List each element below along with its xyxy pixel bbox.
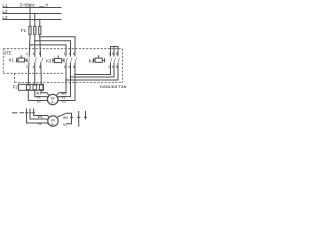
wire motor left leads [41,91,49,96]
contact K2 pole 1 [111,58,112,62]
svg-text:W2: W2 [63,116,68,120]
svg-text:K1: K1 [9,58,15,63]
F2 element 2 [33,85,37,90]
svg-text:K2: K2 [89,59,95,64]
svg-text:5: 5 [39,52,41,56]
bottom diagram wires right [66,113,72,124]
overload relay F2 box [19,84,44,90]
svg-text:NS640IT3b: NS640IT3b [100,85,127,89]
contact K1 pole 1 [28,58,29,62]
svg-text:3~: 3~ [51,100,55,104]
svg-text:6: 6 [116,65,118,69]
wire K3 pole gaps [65,63,67,81]
svg-text:3~: 3~ [51,122,55,126]
F2 element 1 [27,85,31,90]
wire branch to K3 mid phase 2 [35,41,71,57]
svg-text:2: 2 [26,65,28,69]
junction dots [29,7,115,81]
contactor K3 coil [53,55,64,62]
contactor K2 coil [94,55,105,62]
wire L2 rail [3,13,62,15]
svg-text:5: 5 [116,52,118,56]
svg-text:3TE: 3TE [4,51,12,56]
svg-text:K3: K3 [46,59,52,64]
contact K1 pole 2 [35,58,36,62]
motor M1 circle [48,94,58,104]
F2 element 3 [39,85,43,90]
svg-text:6: 6 [73,65,75,69]
wire motor right leads [56,80,66,95]
svg-text:V: V [45,2,48,7]
motor M2 circle [48,116,58,126]
svg-text:5: 5 [73,52,75,56]
blank voltage line [39,6,44,8]
svg-text:4: 4 [33,65,35,69]
fuse F1 pole 2 [34,26,36,34]
motor M2 right leads [57,113,66,117]
contact K1 pole 3 [41,58,42,62]
motor1 terminal labels [36,92,67,104]
wire branch to K3 top phase 3 [40,37,75,57]
contact K3 pole 3 [75,58,76,62]
labels [3,2,127,127]
svg-text:V1: V1 [38,122,42,126]
svg-text:1: 1 [108,52,110,56]
chain line stub [12,112,18,114]
svg-text:3: 3 [33,52,35,56]
K1 pole numbers top [26,52,118,69]
motor2 labels [38,115,69,127]
svg-text:W1: W1 [38,115,43,119]
contact K3 pole 1 [66,58,67,62]
wire K2 bottom bends [75,63,111,75]
svg-text:U1: U1 [37,100,41,104]
svg-text:6: 6 [39,65,41,69]
wire phase 1 drop [28,8,31,57]
terminal ticks [25,112,28,114]
svg-text:2: 2 [64,65,66,69]
svg-text:2: 2 [108,65,110,69]
svg-text:F1: F1 [21,28,27,33]
wire L3 rail [3,19,62,21]
dashed enclosure 3TE [3,49,122,83]
svg-text:1: 1 [64,52,66,56]
svg-text:1: 1 [26,52,28,56]
svg-text:3~50Hz: 3~50Hz [20,2,35,7]
contact K2 pole 2 [114,58,115,62]
svg-text:V2: V2 [63,123,67,127]
svg-text:L3: L3 [3,15,8,20]
svg-text:4: 4 [68,65,70,69]
contact K3 pole 2 [71,58,72,62]
svg-text:4: 4 [112,65,114,69]
svg-text:L2: L2 [3,9,8,14]
wire phase 3 drop [39,20,42,57]
contactor K1 coil [17,55,27,62]
contact K2 pole 3 [118,58,119,62]
svg-text:3: 3 [112,52,114,56]
wire phase 2 drop [34,14,36,57]
wire K2 star bridge [111,47,119,57]
fuse F1 pole 3 [39,26,41,34]
wire L1 rail [3,7,62,9]
svg-text:F2: F2 [13,84,19,89]
bottom motor leads [34,115,49,117]
wire supply tick [29,5,31,8]
fuse F1 pole 1 [29,26,31,34]
svg-text:U2: U2 [62,100,66,104]
svg-text:L1: L1 [3,3,8,8]
bottom diagram wires left [26,109,28,123]
wire branch to K3 bot phase 1 [30,45,66,57]
svg-text:3: 3 [68,52,70,56]
